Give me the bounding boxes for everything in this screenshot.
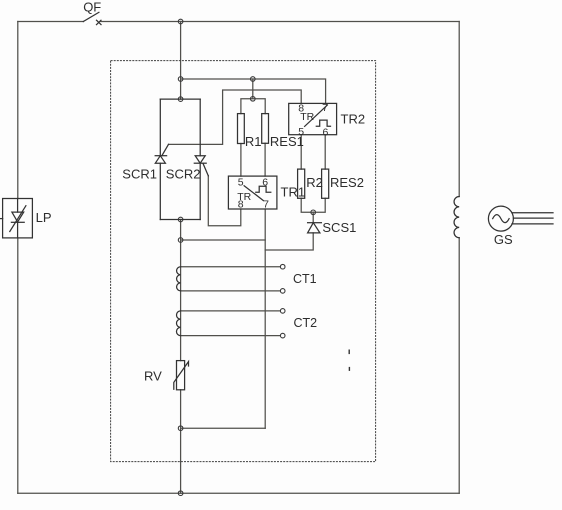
svg-text:R2: R2 bbox=[306, 175, 323, 190]
svg-text:TR1: TR1 bbox=[281, 184, 306, 199]
svg-text:CT2: CT2 bbox=[294, 316, 318, 330]
svg-text:TR: TR bbox=[237, 191, 251, 203]
svg-text:5: 5 bbox=[298, 126, 304, 138]
svg-text:LP: LP bbox=[36, 210, 52, 225]
svg-text:TR2: TR2 bbox=[341, 112, 366, 127]
svg-text:CT1: CT1 bbox=[293, 272, 317, 286]
svg-text:RES2: RES2 bbox=[330, 175, 364, 190]
svg-text:6: 6 bbox=[322, 127, 328, 139]
svg-text:7: 7 bbox=[322, 102, 328, 114]
svg-text:SCR2: SCR2 bbox=[166, 166, 201, 181]
svg-text:TR: TR bbox=[300, 111, 314, 123]
svg-text:7: 7 bbox=[263, 199, 269, 211]
svg-text:GS: GS bbox=[494, 232, 513, 247]
svg-text:SCR1: SCR1 bbox=[122, 166, 157, 181]
svg-text:5: 5 bbox=[238, 176, 244, 188]
svg-text:QF: QF bbox=[83, 0, 101, 14]
svg-text:R1: R1 bbox=[245, 134, 262, 149]
svg-text:RV: RV bbox=[144, 368, 162, 383]
svg-text:6: 6 bbox=[262, 176, 268, 188]
svg-text:SCS1: SCS1 bbox=[322, 220, 356, 235]
